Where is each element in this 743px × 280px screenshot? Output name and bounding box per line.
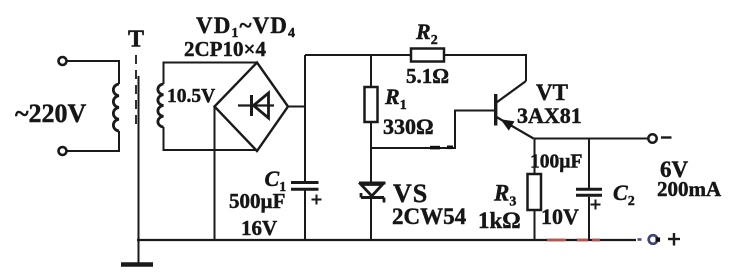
capacitor C1: [291, 183, 322, 205]
transistor VT: [496, 81, 534, 139]
minus sign: [661, 136, 672, 138]
wire secondary bottom: [164, 127, 258, 150]
wire bridge left corner to bottom rail: [214, 107, 216, 241]
bridge diode symbol: [238, 93, 274, 118]
transformer T secondary winding: [158, 84, 164, 127]
svg-text:1kΩ: 1kΩ: [478, 208, 521, 233]
svg-text:5.1Ω: 5.1Ω: [406, 64, 449, 88]
svg-text:10.5V: 10.5V: [167, 86, 215, 107]
wire secondary top: [164, 63, 257, 85]
resistor R3: [528, 174, 542, 210]
resistor R1: [365, 87, 378, 122]
terminal bottom-left input: [59, 147, 67, 155]
svg-text:10V: 10V: [541, 204, 579, 229]
wire blob artifacts: [430, 146, 453, 150]
svg-text:VT: VT: [536, 80, 568, 105]
wire top rail right: [444, 55, 526, 81]
wire output node to C2: [588, 139, 590, 189]
red dash artifacts: [547, 239, 600, 242]
svg-text:3AX81: 3AX81: [517, 103, 582, 128]
svg-text:2CW54: 2CW54: [392, 204, 467, 229]
svg-text:R2: R2: [415, 19, 438, 48]
svg-text:2CP10×4: 2CP10×4: [184, 37, 266, 61]
terminal top-left input: [59, 57, 67, 65]
svg-text:R3: R3: [493, 181, 516, 210]
resistor R2: [411, 49, 444, 62]
svg-text:R1: R1: [384, 84, 407, 113]
wire R3 to bottom rail: [534, 210, 536, 240]
wire bridge right corner to node: [288, 106, 305, 108]
svg-text:16V: 16V: [241, 216, 277, 240]
navy dash artifact: [638, 238, 642, 241]
ground: [121, 262, 153, 267]
terminal output plus: [649, 235, 660, 244]
wire top rail left: [305, 54, 411, 56]
wire primary top: [67, 61, 119, 84]
transformer core (dashed): [135, 55, 137, 124]
svg-text:500µF: 500µF: [229, 189, 285, 213]
transformer T primary winding: [113, 84, 119, 131]
wire C1 to bottom rail: [304, 191, 306, 241]
wire node to top rail and C1: [304, 55, 306, 181]
terminal output minus: [648, 134, 656, 142]
svg-text:~220V: ~220V: [15, 99, 87, 128]
wire bottom rail: [137, 239, 636, 241]
wire emitter node to R3: [534, 139, 536, 175]
wire R1 branch: [370, 55, 372, 87]
bridge rectifier VD1-VD4 diamond: [215, 63, 289, 152]
svg-text:200mA: 200mA: [657, 177, 722, 201]
wire output line: [534, 138, 649, 140]
wire C2 to bottom rail: [588, 197, 590, 240]
plus sign: [668, 233, 680, 246]
wire base network: [371, 111, 494, 149]
svg-text:T: T: [128, 27, 144, 53]
wire VS to bottom rail: [370, 198, 372, 241]
zener diode VS: [359, 183, 386, 203]
wire R1 to VS: [370, 122, 372, 182]
wire primary bottom: [67, 131, 119, 151]
svg-text:100µF: 100µF: [530, 152, 582, 173]
svg-text:C2: C2: [613, 180, 635, 209]
shield wire to ground: [138, 76, 140, 263]
svg-text:330Ω: 330Ω: [383, 114, 434, 139]
capacitor C2: [576, 189, 602, 209]
